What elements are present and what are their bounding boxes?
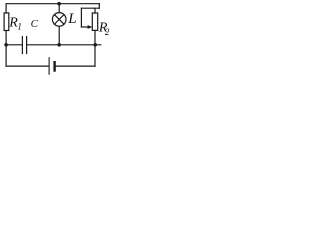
rheostat slider arrowhead xyxy=(88,25,93,29)
svg-text:2: 2 xyxy=(105,27,110,37)
wire bottom right xyxy=(56,65,95,67)
resistor R2 box xyxy=(92,13,97,30)
svg-text:C: C xyxy=(31,18,39,30)
wire top-right jog down to rheostat rod xyxy=(98,4,100,9)
wire middle right lead xyxy=(27,44,101,46)
node right junction dot xyxy=(93,43,97,47)
capacitor C xyxy=(21,37,23,54)
svg-text:L: L xyxy=(67,11,76,27)
wire right lower xyxy=(94,30,96,66)
svg-text:1: 1 xyxy=(17,21,22,31)
rheostat slider arm xyxy=(80,8,82,27)
node junction left dot xyxy=(4,43,8,47)
wire rheostat top stub xyxy=(94,8,96,13)
wire left lower xyxy=(5,31,7,67)
battery plate thin long xyxy=(48,58,50,74)
lamp L cross xyxy=(54,15,64,25)
wire left upper xyxy=(5,4,7,13)
wire bottom left xyxy=(6,65,49,67)
resistor R1 xyxy=(4,13,9,31)
node top wire dot xyxy=(57,2,61,6)
node lamp bottom dot xyxy=(57,43,61,47)
lamp L circle xyxy=(52,13,66,27)
rheostat rod wire xyxy=(81,7,99,9)
wire lamp bottom lead xyxy=(58,26,60,45)
battery plate thick short xyxy=(53,62,55,70)
wire top xyxy=(6,3,99,5)
wire middle left lead xyxy=(6,44,22,46)
wire lamp top lead xyxy=(58,4,60,13)
